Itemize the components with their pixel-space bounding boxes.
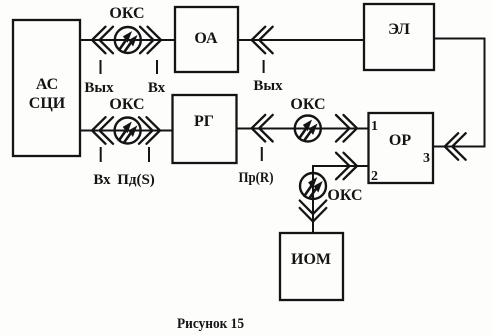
svg-text:ЭЛ: ЭЛ xyxy=(388,21,410,38)
svg-text:2: 2 xyxy=(371,169,378,184)
svg-text:ОА: ОА xyxy=(194,30,218,47)
chevron after ОА xyxy=(252,27,273,54)
connector ОКС vertical: circle symbol xyxy=(300,173,326,199)
wire: РГ out(Пр) to ОР pin 1 xyxy=(237,128,369,130)
svg-text:РГ: РГ xyxy=(194,113,214,130)
connector ОКС vertical: down chevrons xyxy=(300,201,327,222)
wire: АС СЦИ out(Вых) to ОА in(Вх), top row xyxy=(80,39,175,41)
chevron after РГ xyxy=(252,115,273,142)
wire: ОР pin 2 to vertical branch xyxy=(313,166,369,173)
connector ОКС middle: circle symbol xyxy=(115,118,141,144)
box ЭЛ xyxy=(364,4,434,70)
svg-text:АС: АС xyxy=(36,76,58,93)
chevron on pin 2 wire xyxy=(336,153,357,180)
box ОР with pins 1,2,3 xyxy=(369,113,434,184)
tick under Вх (top row) xyxy=(156,60,158,74)
svg-text:Вых: Вых xyxy=(253,78,283,94)
wire: ОА out to ЭЛ in xyxy=(238,39,364,41)
svg-text:ОКС: ОКС xyxy=(109,5,144,22)
chevron into ОР pin 3 xyxy=(445,133,466,160)
svg-text:3: 3 xyxy=(423,151,430,166)
svg-text:ОКС: ОКС xyxy=(327,187,362,204)
wire: ЭЛ out right, down the right side to ОР pin 3 xyxy=(433,39,485,147)
tick under Пр(R) xyxy=(261,147,263,161)
svg-text:СЦИ: СЦИ xyxy=(29,95,66,112)
box АС СЦИ xyxy=(13,20,80,156)
wire: АС СЦИ in(Вх) to РГ, middle row xyxy=(80,130,173,132)
svg-text:Вх: Вх xyxy=(93,172,111,188)
svg-text:1: 1 xyxy=(371,119,378,134)
connector ОКС top: circle symbol xyxy=(115,27,141,53)
tick under Пд(S) xyxy=(148,147,150,162)
connector ОКС top: left chevrons xyxy=(92,27,113,54)
tick under Вых (after ОА) xyxy=(263,60,265,73)
box ОА (optical amplifier) xyxy=(175,7,238,72)
box ИОМ xyxy=(280,233,343,300)
svg-text:Пр(R): Пр(R) xyxy=(239,170,274,186)
tick under Вх (middle row) xyxy=(100,147,102,162)
svg-text:Рисунок 15: Рисунок 15 xyxy=(177,316,244,332)
svg-text:Пд(S): Пд(S) xyxy=(117,172,155,188)
svg-text:Вх: Вх xyxy=(148,80,166,96)
svg-text:ОКС: ОКС xyxy=(109,96,144,113)
svg-text:ОР: ОР xyxy=(389,132,411,149)
svg-text:Вых: Вых xyxy=(84,80,114,96)
connector ОКС top: right chevrons xyxy=(140,27,161,54)
box РГ (regenerator) xyxy=(173,95,237,163)
chevron into ОР pin 1 xyxy=(336,115,357,142)
wire: vertical down to ИОМ xyxy=(312,166,314,233)
svg-text:ОКС: ОКС xyxy=(290,96,325,113)
connector ОКС middle: right chevrons xyxy=(139,117,160,144)
connector ОКС before ОР: circle symbol xyxy=(295,116,321,142)
svg-text:ИОМ: ИОМ xyxy=(291,251,331,268)
tick under Вых (top row) xyxy=(100,60,102,74)
connector ОКС middle: left chevrons xyxy=(92,117,113,144)
